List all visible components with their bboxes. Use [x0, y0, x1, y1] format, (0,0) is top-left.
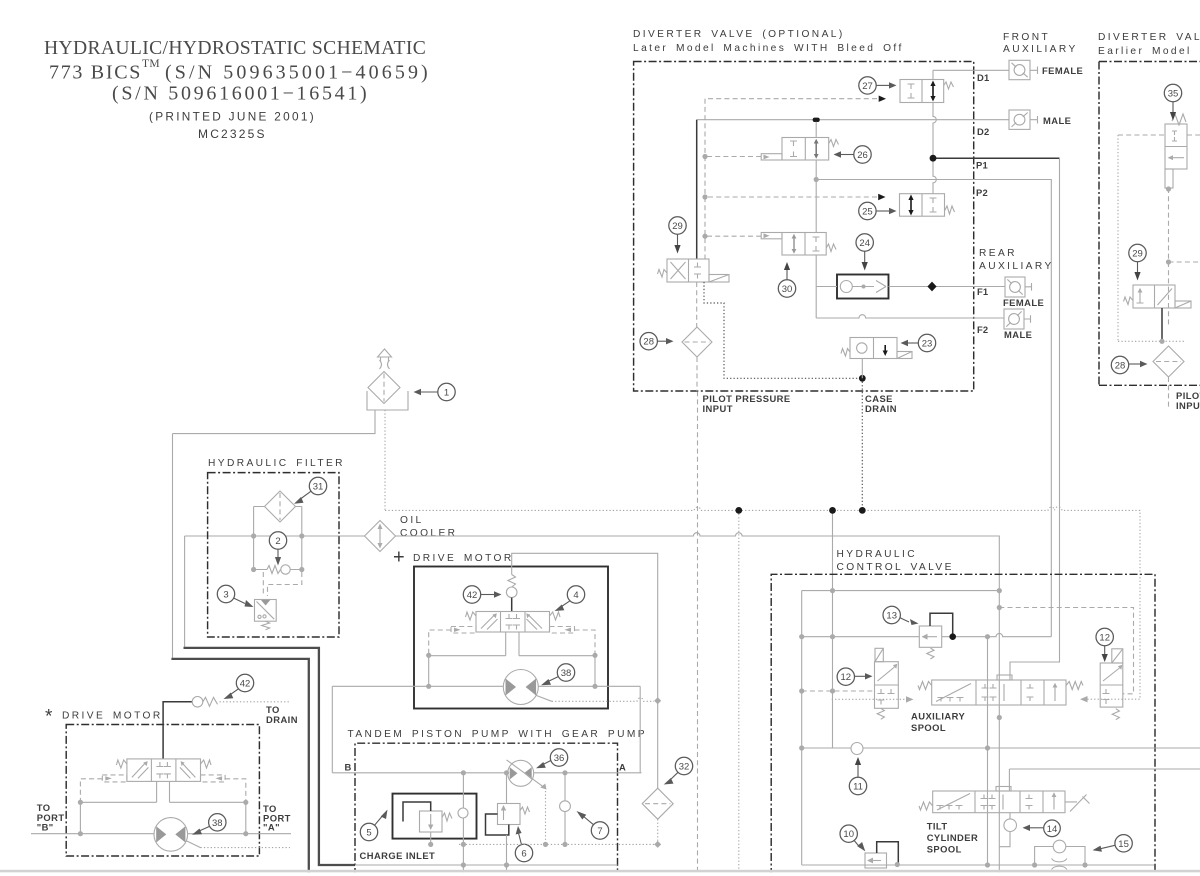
node pilot left [426, 653, 431, 658]
filter 31 diamond [265, 491, 296, 522]
node valve supply tap [829, 507, 836, 514]
svg-text:42: 42 [467, 590, 478, 601]
BREATHER1 [173, 349, 456, 510]
drive motor 38 [503, 670, 538, 705]
svg-text:MALE: MALE [1043, 115, 1071, 126]
svg-text:773 BICS: 773 BICS [49, 62, 142, 84]
svg-text:28: 28 [643, 337, 654, 348]
solenoid valve 12 right [1112, 649, 1123, 663]
piston pump 36 [508, 760, 534, 786]
page bottom edge [0, 870, 1200, 873]
svg-text:SPOOL: SPOOL [911, 722, 946, 733]
filter 28 earlier [1153, 346, 1184, 377]
wire pilot to valve 26 dashed [705, 156, 761, 158]
node case drain junction [859, 375, 866, 382]
node pilot branch [1166, 259, 1171, 264]
svg-text:4: 4 [573, 590, 578, 601]
svg-text:F2: F2 [977, 324, 988, 335]
solenoid valve 27 [900, 80, 944, 103]
node aux return [985, 862, 990, 867]
svg-text:AUXILIARY: AUXILIARY [979, 261, 1054, 272]
callout 29 earlier [1129, 244, 1146, 261]
coupler F2 male [1004, 309, 1024, 329]
filter 32 [642, 788, 673, 819]
callout 31 [309, 477, 326, 494]
svg-text:13: 13 [886, 611, 897, 622]
wire aux inlet dotted [832, 698, 906, 700]
callout 26 [854, 146, 871, 163]
wire main pump line [332, 772, 641, 774]
pilot arrow valve 27 [879, 96, 886, 102]
valve 30 solenoid tail [761, 233, 782, 239]
callout 24 [856, 234, 873, 251]
oil cooler diamond [365, 521, 396, 552]
breather restriction [380, 360, 390, 369]
wire to F2 coupler [974, 315, 1031, 323]
solenoid valve 23 [850, 338, 897, 359]
wire filter 32 outlet dotted [657, 819, 659, 844]
svg-text:26: 26 [857, 150, 868, 161]
node check11 left [799, 745, 804, 750]
callout 38 [557, 664, 574, 681]
svg-text:32: 32 [679, 762, 690, 773]
wire aux port riser [987, 637, 989, 865]
svg-text:(S/N 509635001−40659): (S/N 509635001−40659) [165, 62, 431, 84]
wire motor case drain star [186, 841, 200, 848]
wire valve23 to case drain [861, 359, 863, 379]
wire charge supply dotted [738, 510, 740, 876]
svg-text:3: 3 [223, 590, 228, 601]
pilot valve 29 earlier [1133, 285, 1175, 308]
aux spool spring left [918, 682, 932, 690]
check valve 42 star ball [192, 697, 203, 708]
svg-text:DIVERTER VALVE (OPTIONAL): DIVERTER VALVE (OPTIONAL) [633, 29, 845, 40]
wire motor line [332, 685, 640, 687]
wire pilot right dashed [575, 630, 596, 654]
check valve 42 spring [508, 575, 516, 588]
svg-text:DRIVE MOTOR: DRIVE MOTOR [62, 711, 163, 722]
breather vent arrow [378, 349, 392, 361]
node pilot 26 [702, 154, 707, 159]
callout 28 [640, 333, 657, 350]
node main inlet [997, 588, 1002, 593]
node relief to gallery [949, 633, 956, 640]
plug D2 [813, 118, 820, 122]
check valve 2 spring [267, 566, 281, 574]
svg-text:DRAIN: DRAIN [266, 714, 298, 725]
svg-text:FEMALE: FEMALE [1003, 297, 1044, 308]
node pilot row mid [830, 688, 835, 693]
valve 4 star spring right [201, 760, 212, 768]
coupler D1 female [1009, 60, 1030, 79]
svg-text:CHARGE INLET: CHARGE INLET [360, 850, 436, 861]
svg-text:30: 30 [782, 284, 793, 295]
svg-text:12: 12 [841, 672, 852, 683]
svg-text:11: 11 [853, 782, 863, 793]
svg-text:FEMALE: FEMALE [1042, 65, 1083, 76]
FILTERBOX [208, 458, 345, 637]
wire pilot right star dashed [225, 779, 246, 801]
wire motor loop star [80, 781, 245, 833]
callout 1 [438, 383, 455, 400]
node pilot 30 [702, 234, 707, 239]
callout 2 [269, 532, 286, 549]
wire motor loop [429, 632, 595, 686]
callout 42 star [236, 674, 253, 691]
wire pilot pressure input dashed [697, 391, 699, 876]
node valve35 outlet [1166, 186, 1171, 191]
coupler D2 male [1009, 110, 1030, 129]
wire pump return line [355, 864, 618, 866]
STARMOTOR [31, 674, 298, 856]
wire valve6 riser [506, 773, 508, 876]
wire tank drain dotted [384, 410, 386, 510]
oil cooler arrows [379, 525, 381, 547]
REARAUX [974, 248, 1054, 340]
node P1 [930, 155, 937, 162]
wire tank return dotted [385, 507, 1140, 699]
wire F2 [816, 315, 974, 318]
svg-text:36: 36 [554, 753, 565, 764]
callout 10 [840, 825, 857, 842]
wire tilt supply [1009, 769, 1200, 791]
wire valve35 pilot dashed [1169, 188, 1200, 327]
diverter earlier enclosure [1099, 62, 1200, 386]
svg-text:"A": "A" [263, 822, 280, 833]
svg-text:23: 23 [922, 339, 933, 350]
check valve 2 ball [281, 565, 290, 574]
svg-text:29: 29 [672, 221, 683, 232]
valve 29 tail [709, 275, 729, 283]
filter 1 diamond [368, 372, 400, 404]
check valve 42 star spring [203, 697, 218, 706]
wire main supply to filter [185, 535, 365, 537]
node motor left star [78, 831, 83, 836]
valve 3 spring [262, 621, 270, 630]
HCV [771, 549, 1200, 876]
diverter valve enclosure [634, 62, 974, 392]
svg-text:31: 31 [313, 482, 324, 493]
wire case drain to tank dotted [861, 378, 863, 510]
valve 29 earlier tail [1175, 301, 1191, 308]
node pilot row left [799, 688, 804, 693]
svg-text:DRAIN: DRAIN [865, 403, 897, 414]
wire pilot to valve35 dashed [1118, 134, 1200, 136]
wire main supply to control valve [396, 533, 1000, 876]
wire to drain dotted [220, 701, 290, 703]
node charge relief [428, 842, 433, 847]
callout 15 [1115, 835, 1132, 852]
node relief right [985, 634, 990, 639]
svg-text:35: 35 [1168, 89, 1179, 100]
tilt spool lever [1065, 795, 1090, 812]
PLUSMOTOR [332, 547, 692, 845]
wire P2 [816, 179, 974, 181]
wire left supply vertical [184, 536, 186, 647]
svg-text:28: 28 [1115, 361, 1126, 372]
svg-text:12: 12 [1099, 633, 1110, 644]
callout 12 right [1096, 628, 1113, 645]
travel valve 4 star [127, 759, 201, 782]
svg-text:SPOOL: SPOOL [927, 844, 962, 855]
wire filter earlier outlet dashed [1168, 377, 1170, 407]
callout 12 left [837, 668, 854, 685]
check ball 5 [458, 808, 468, 818]
hydraulic filter enclosure [208, 473, 339, 637]
node pilot 25 [702, 194, 707, 199]
coupler F1 female [1005, 277, 1025, 297]
svg-text:AUXILIARY: AUXILIARY [1003, 44, 1078, 55]
svg-text:5: 5 [366, 828, 371, 839]
node return 1 [461, 862, 466, 867]
wire pilot row dashed [802, 690, 875, 692]
svg-text:A: A [619, 762, 626, 773]
wire pilot to valve 25 dashed [705, 196, 877, 198]
wire gallery bottom [802, 864, 1154, 866]
valve 29 spring [658, 270, 668, 278]
node F1 [927, 282, 936, 292]
valve 23 spring [841, 349, 850, 357]
callout 23 [918, 334, 935, 351]
svg-text:P1: P1 [976, 160, 988, 171]
LONGLINES [385, 378, 1140, 876]
node pilot branch [997, 605, 1002, 610]
svg-text:P2: P2 [976, 187, 988, 198]
callout 14 [1044, 820, 1061, 837]
callout 7 [591, 822, 608, 839]
svg-text:HYDRAULIC: HYDRAULIC [837, 549, 917, 560]
wire P1 black [933, 157, 1060, 159]
valve 30 spring [826, 244, 836, 252]
callout 35 [1164, 84, 1181, 101]
solenoid valve 35 [1165, 124, 1187, 169]
relief valve 6 [498, 804, 521, 825]
svg-text:1: 1 [444, 388, 449, 399]
node pilot right [592, 653, 597, 658]
svg-text:D2: D2 [977, 126, 989, 137]
filter 28 [682, 327, 712, 357]
callout 29 [669, 217, 686, 234]
valve 26 spring [829, 140, 839, 147]
node pump line 1 [461, 770, 466, 775]
wire filter branch [254, 507, 302, 570]
node bypass-right [299, 567, 304, 572]
node return 2 [504, 862, 509, 867]
wire pump control dotted [545, 788, 547, 845]
svg-text:38: 38 [212, 818, 223, 829]
svg-text:REAR: REAR [979, 248, 1017, 259]
svg-text:CYLINDER: CYLINDER [927, 832, 979, 843]
svg-text:15: 15 [1118, 839, 1129, 850]
svg-text:(S/N 509616001−16541): (S/N 509616001−16541) [112, 83, 369, 105]
wire pilot left dashed [429, 630, 451, 654]
wire D1 [933, 70, 974, 79]
callout 5 [360, 823, 377, 840]
svg-text:29: 29 [1132, 249, 1143, 260]
wire check42 to valve black [511, 598, 513, 612]
wire check 11 line [802, 747, 1200, 749]
valve 27 spring [944, 82, 954, 89]
svg-text:OIL: OIL [400, 515, 424, 526]
valve 4 star spring left [116, 760, 127, 768]
svg-text:HYDRAULIC FILTER: HYDRAULIC FILTER [208, 458, 345, 469]
svg-text:MALE: MALE [1004, 329, 1032, 340]
aux spool spring right [1066, 682, 1083, 690]
svg-text:HYDRAULIC/HYDROSTATIC SCHEMATI: HYDRAULIC/HYDROSTATIC SCHEMATIC [44, 38, 426, 59]
anticavitation 15 [1035, 847, 1085, 866]
callout 28 earlier [1111, 356, 1128, 373]
control valve enclosure [771, 574, 1155, 876]
callout 36 [550, 749, 567, 766]
valve 4 pilot cap right [550, 627, 575, 634]
node charge tap [735, 507, 742, 514]
node motor right star [243, 831, 248, 836]
check valve 14 [1004, 819, 1017, 832]
svg-text:B: B [345, 762, 352, 773]
callout 11 [849, 777, 866, 794]
valve 29 earlier spring [1124, 297, 1134, 305]
wire B riser [331, 686, 333, 773]
callout 42 [463, 586, 480, 603]
wire to D2 coupler [974, 116, 1038, 124]
svg-text:+: + [393, 547, 405, 569]
node case drain tap [859, 507, 866, 514]
wire motor case drain dotted [537, 696, 552, 702]
node filter-main-right [299, 533, 304, 538]
star drive motor enclosure [66, 725, 259, 857]
valve 35 spring [1172, 114, 1186, 125]
node pump line 3 [562, 770, 567, 775]
wire pilot enclosure dotted [1118, 135, 1185, 341]
wire pilot to valve 30 dashed [705, 235, 761, 237]
relief block 5 [393, 794, 477, 839]
valve 25 spring [945, 206, 955, 214]
solenoid valve 3 [255, 600, 277, 622]
svg-text:6: 6 [521, 849, 526, 860]
wire to D1 coupler [974, 67, 1038, 75]
wire to F1 coupler [974, 283, 1032, 291]
node charge 1 [461, 842, 466, 847]
COOLER [365, 515, 458, 552]
pilot valve 29 [667, 259, 709, 282]
tilt spool spring left [919, 802, 933, 810]
svg-text:25: 25 [862, 207, 873, 218]
valve 35 tail [1165, 169, 1173, 188]
node anticav right [1082, 862, 1087, 867]
wire pilot to 12 right dashed [999, 608, 1133, 694]
valve 12 left spring [877, 708, 884, 719]
svg-text:38: 38 [561, 668, 572, 679]
svg-text:INPUT: INPUT [1176, 400, 1200, 411]
relief valve 13 [919, 626, 941, 647]
wire valve27 to P1 [933, 103, 936, 194]
callout 25 [859, 202, 876, 219]
PUMP [332, 686, 661, 876]
reservoir tank [367, 391, 408, 410]
node filter32 outlet [654, 841, 661, 848]
check valve 42 ball [506, 587, 517, 598]
svg-text:MC2325S: MC2325S [198, 127, 267, 141]
wire motor line star [31, 833, 291, 835]
svg-text:"B": "B" [37, 822, 54, 833]
node aux bottom [997, 715, 1002, 720]
svg-text:TILT: TILT [927, 821, 948, 832]
valve 26 solenoid tail [761, 154, 782, 160]
valve 4 spring right [550, 612, 561, 620]
svg-text:7: 7 [597, 826, 602, 837]
wire tilt outlet [999, 813, 1010, 847]
wire pilot to valve 27 dashed [705, 99, 877, 259]
wire left return vertical [172, 434, 174, 658]
svg-text:FRONT: FRONT [1003, 32, 1050, 43]
solenoid valve 26 [782, 138, 829, 161]
wire valve29 earlier outlet black [1161, 308, 1163, 341]
wire tank to left [173, 410, 376, 434]
tilt cylinder spool valve [933, 791, 1065, 813]
wire relief line [802, 633, 1052, 636]
relief valve 10 [865, 853, 887, 868]
wire valve to check 42 black [163, 702, 192, 759]
node charge 2 [543, 842, 548, 847]
svg-text:Earlier Model Machines: Earlier Model Machines [1098, 46, 1200, 57]
svg-text:10: 10 [843, 829, 854, 840]
wire charge line dotted [459, 843, 658, 845]
wire gear pump branch [431, 773, 464, 876]
DIVEARLY [1098, 32, 1200, 411]
svg-text:INPUT: INPUT [703, 403, 733, 414]
wire A riser [639, 686, 641, 773]
callout 6 [515, 844, 532, 861]
valve 4 star pilot cap left [102, 775, 127, 782]
svg-text:(PRINTED JUNE 2001): (PRINTED JUNE 2001) [149, 110, 316, 124]
FRONTAUX [974, 32, 1084, 680]
callout 32 [675, 757, 692, 774]
wire pilot left star dashed [80, 779, 102, 801]
svg-text:42: 42 [240, 679, 251, 690]
svg-text:CONTROL VALVE: CONTROL VALVE [837, 562, 954, 573]
callout 4 [567, 586, 584, 603]
svg-text:24: 24 [859, 238, 870, 249]
check valve 24 [837, 275, 889, 299]
wire F1 [816, 286, 974, 288]
wire P2 riser [974, 180, 1052, 637]
svg-text:AUXILIARY: AUXILIARY [911, 711, 966, 722]
valve 12 right spring [1112, 709, 1119, 720]
solenoid valve 30 [782, 233, 826, 256]
wire D2 [697, 119, 974, 121]
svg-text:2: 2 [275, 536, 280, 547]
svg-text:27: 27 [862, 81, 873, 92]
pump enclosure [355, 743, 618, 876]
wire control valve supply [832, 510, 834, 748]
node charge 3 [562, 842, 567, 847]
wire gallery top [802, 590, 1000, 592]
valve 4 star pilot cap right [201, 775, 226, 782]
wire bleed spool line [815, 122, 817, 318]
drive motor 38 star [154, 818, 188, 852]
node pilot left star [78, 800, 83, 805]
node bypass-left [251, 567, 256, 572]
callout 3 [217, 585, 234, 602]
node pump line 2 [504, 770, 509, 775]
svg-text:F1: F1 [977, 286, 988, 297]
node motor left [426, 684, 431, 689]
wire supply to check 42 [512, 553, 658, 701]
wire heavy return to pump [171, 659, 308, 876]
svg-text:DRIVE MOTOR: DRIVE MOTOR [413, 553, 514, 564]
check valve 11 [851, 743, 863, 755]
auxiliary spool valve [932, 680, 1066, 705]
